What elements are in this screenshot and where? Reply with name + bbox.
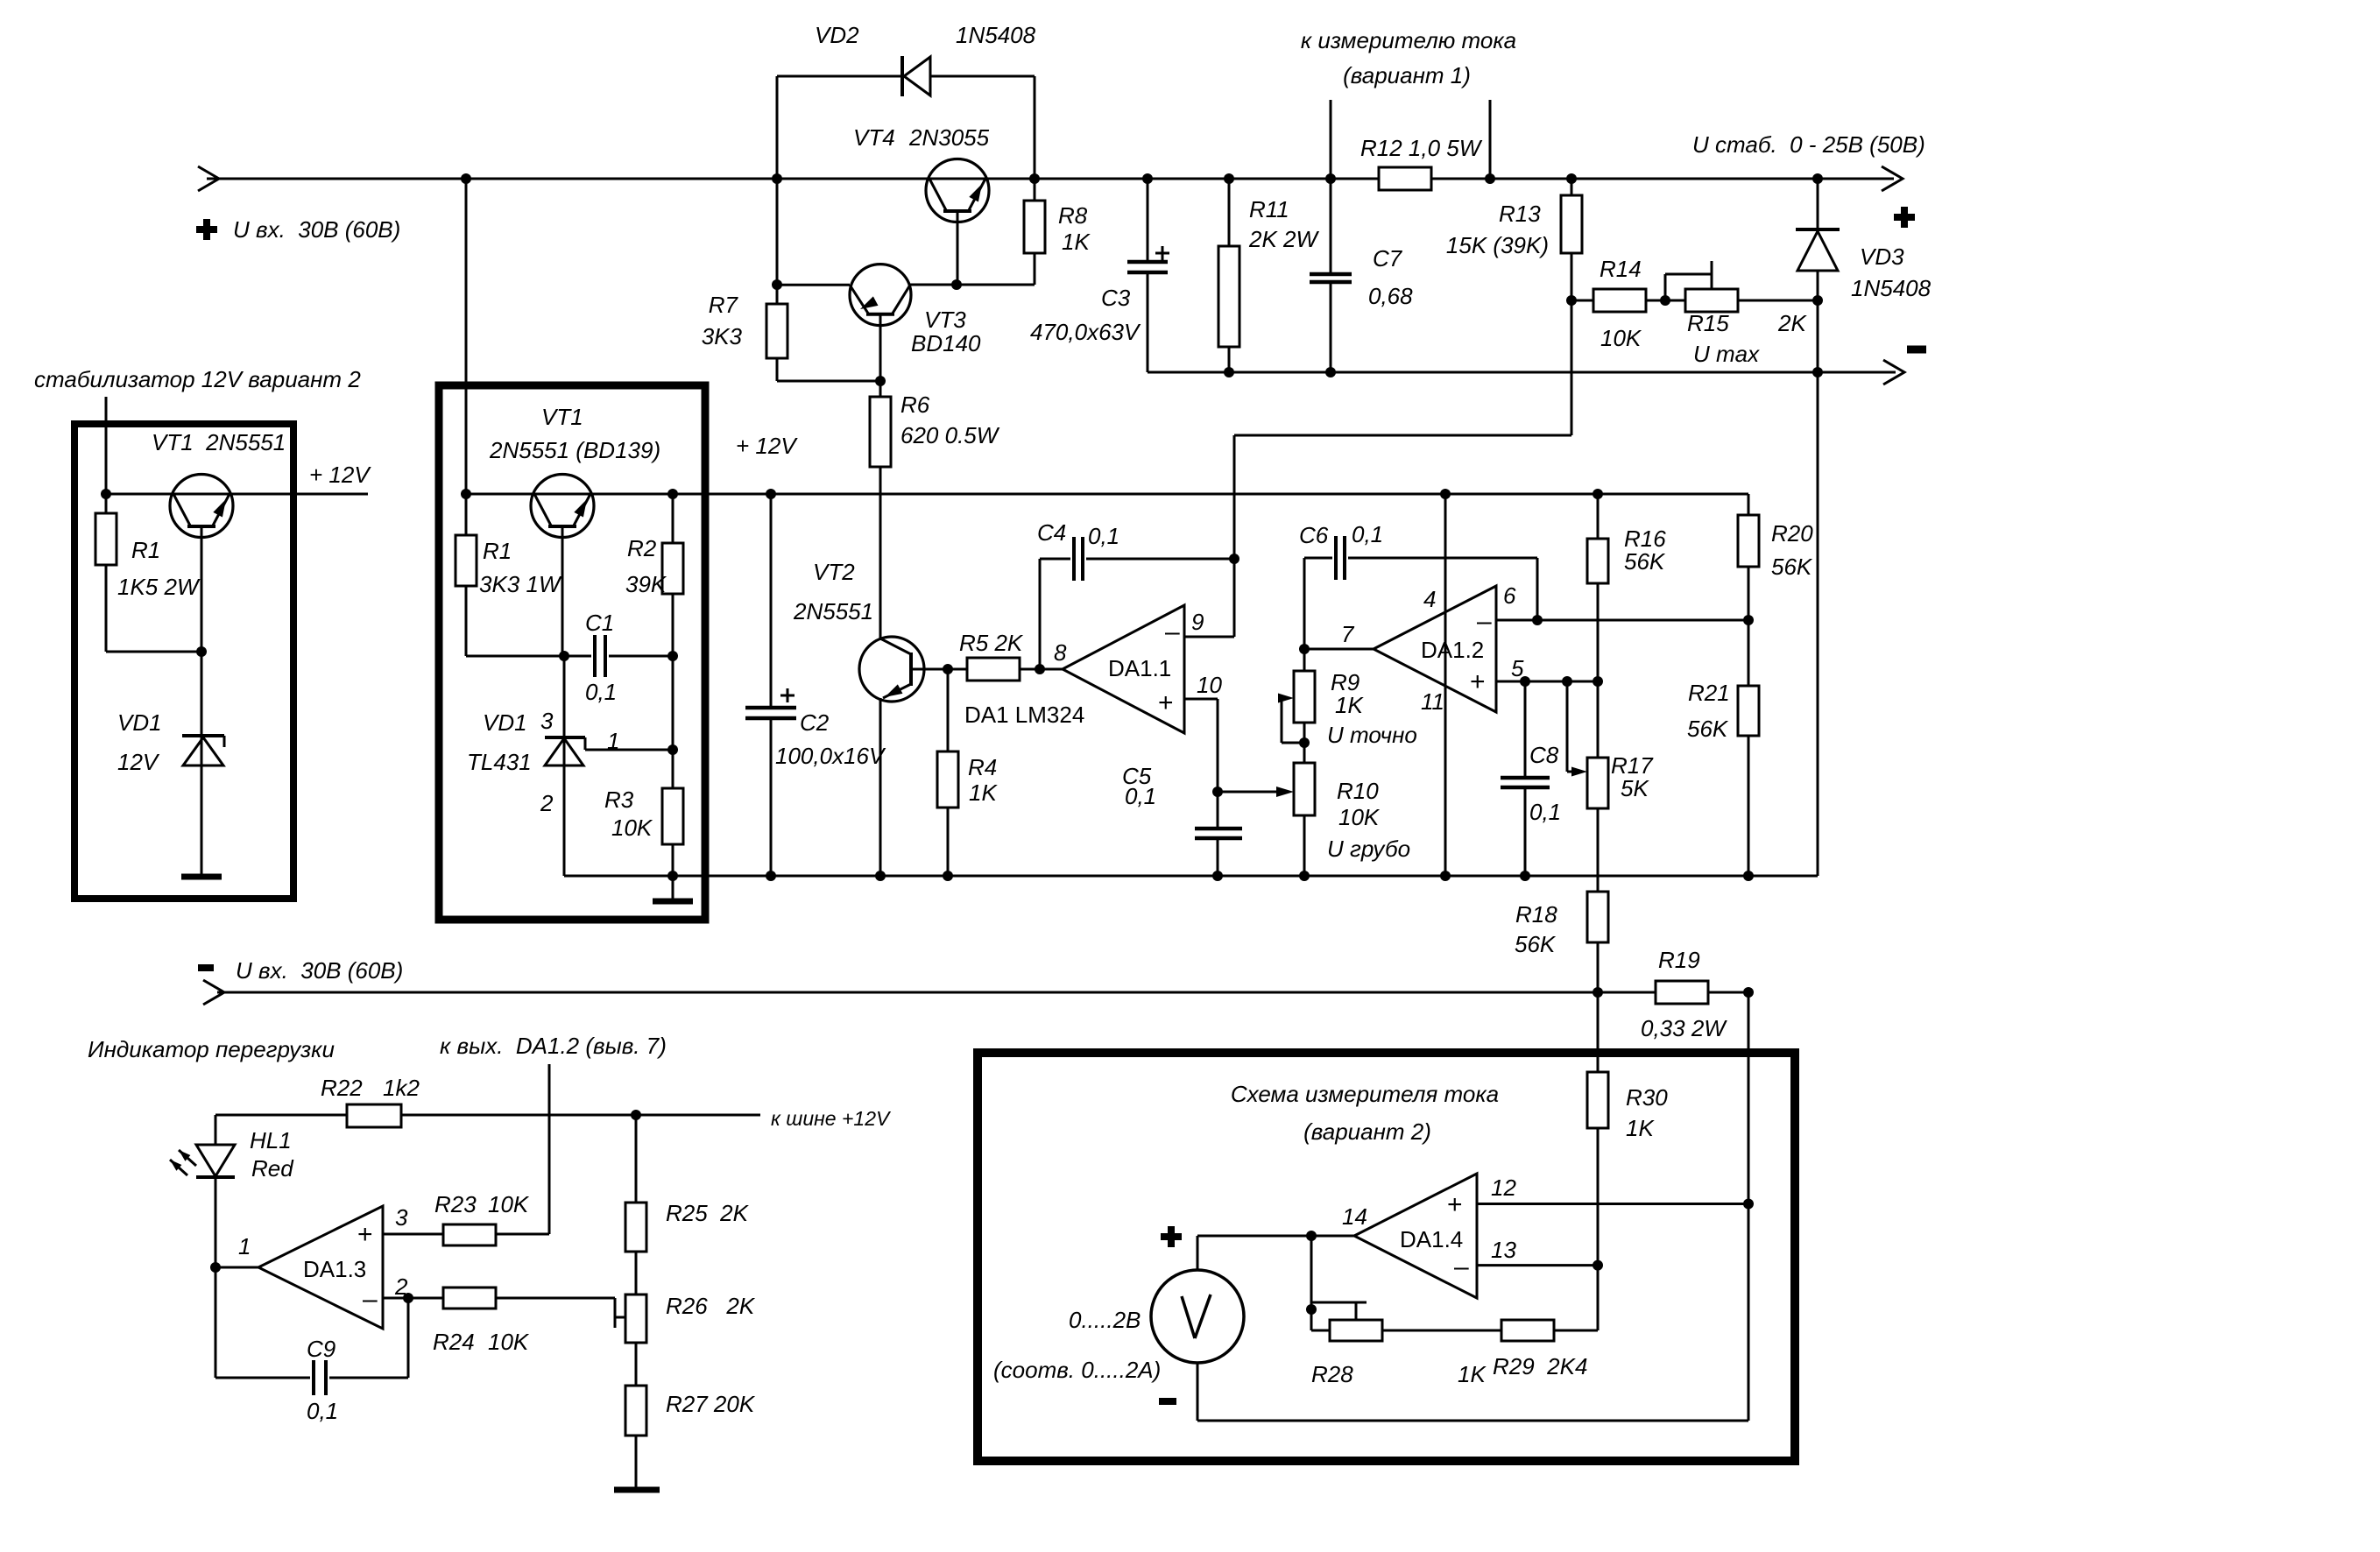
svg-text:R15: R15 bbox=[1687, 310, 1729, 336]
wire VD2 top horizontal bbox=[777, 75, 1035, 78]
svg-text:к шине +12V: к шине +12V bbox=[771, 1107, 892, 1130]
svg-text:VD3: VD3 bbox=[1860, 243, 1904, 270]
wire TL431 ref to R2/R3 node bbox=[585, 749, 673, 751]
svg-text:1N5408: 1N5408 bbox=[956, 22, 1036, 48]
capacitor C6 bbox=[1299, 521, 1537, 649]
resistor R4 bbox=[937, 669, 998, 876]
resistor R16 bbox=[1587, 494, 1666, 758]
label stabilizator 12V variant 2 bbox=[34, 366, 361, 392]
capacitor C7 bbox=[1310, 179, 1413, 372]
svg-text:–: – bbox=[1165, 617, 1180, 646]
svg-text:56K: 56K bbox=[1624, 548, 1666, 575]
shunt regulator VD1 TL431 bbox=[467, 656, 619, 816]
node output arrow chevron + bbox=[1882, 166, 1903, 191]
wire VT2 emitter down bbox=[879, 698, 882, 876]
svg-text:Индикатор перегрузки: Индикатор перегрузки bbox=[88, 1036, 335, 1062]
svg-text:13: 13 bbox=[1491, 1237, 1516, 1263]
svg-text:–: – bbox=[1454, 1252, 1469, 1281]
trimmer R26 bbox=[625, 1293, 756, 1386]
svg-text:10K: 10K bbox=[1600, 325, 1642, 351]
capacitor C8 bbox=[1501, 681, 1561, 876]
svg-text:R11: R11 bbox=[1249, 196, 1289, 222]
label DA1 LM324 bbox=[964, 702, 1084, 728]
svg-text:10K: 10K bbox=[611, 815, 653, 841]
wire pin14 output bbox=[1197, 1235, 1354, 1238]
trimmer R17 bbox=[1567, 681, 1654, 808]
voltmeter PV1 bbox=[993, 1236, 1244, 1421]
wire R1b bottom to C1 node bbox=[466, 655, 564, 658]
svg-text:0,68: 0,68 bbox=[1368, 283, 1413, 309]
svg-text:(вариант 1): (вариант 1) bbox=[1343, 62, 1471, 88]
wire top +rail input segment bbox=[207, 178, 1379, 180]
op-amp DA1.4 bbox=[1342, 1174, 1516, 1298]
svg-text:R30: R30 bbox=[1626, 1084, 1668, 1111]
transistor VT3 bbox=[850, 265, 981, 356]
resistor R7 bbox=[702, 292, 787, 381]
wire VD3 long drop to ground rail bbox=[1817, 372, 1819, 876]
transistor VT4 bbox=[853, 124, 990, 285]
wire DA1.4 pin12 bbox=[1477, 1203, 1748, 1205]
svg-text:0,33 2W: 0,33 2W bbox=[1641, 1015, 1727, 1041]
wire voltmeter minus loop bbox=[1197, 1204, 1748, 1421]
svg-text:VT3: VT3 bbox=[924, 307, 966, 333]
transistor VT2 bbox=[793, 559, 948, 702]
svg-text:DA1.3: DA1.3 bbox=[303, 1256, 366, 1282]
capacitor C2 bbox=[745, 494, 886, 876]
svg-text:5K: 5K bbox=[1621, 775, 1649, 801]
svg-text:10K: 10K bbox=[1338, 804, 1381, 830]
svg-text:11: 11 bbox=[1421, 688, 1444, 715]
svg-text:+: + bbox=[1158, 688, 1174, 717]
svg-text:10K: 10K bbox=[488, 1329, 530, 1355]
label U vh input bbox=[233, 216, 400, 243]
wire R7 bottom to R6 top bbox=[777, 380, 880, 383]
wire +12V rail main bbox=[466, 493, 1748, 496]
svg-text:1K: 1K bbox=[1626, 1115, 1655, 1141]
svg-text:к вых. DA1.2 (выв. 7): к вых. DA1.2 (выв. 7) bbox=[440, 1033, 667, 1059]
svg-text:R14: R14 bbox=[1600, 256, 1642, 282]
label + output big bbox=[1894, 207, 1915, 228]
wire TL431 anode down bbox=[563, 766, 566, 876]
svg-text:TL431: TL431 bbox=[467, 749, 532, 775]
svg-text:C3: C3 bbox=[1101, 285, 1131, 311]
svg-text:1: 1 bbox=[238, 1233, 251, 1259]
node input arrow chevron bbox=[198, 166, 219, 191]
svg-text:C2: C2 bbox=[800, 709, 830, 736]
resistor R3 bbox=[604, 750, 683, 876]
wire box1 +12V rail bbox=[106, 493, 368, 496]
svg-text:C9: C9 bbox=[307, 1336, 335, 1362]
capacitor C9 feedback loop bbox=[215, 1267, 408, 1424]
svg-text:+ 12V: + 12V bbox=[309, 462, 371, 488]
wire R1 to VT1 emitter junction bbox=[106, 651, 201, 653]
wire R22 row bbox=[215, 1114, 347, 1117]
wire to +12V bus bbox=[636, 1114, 760, 1117]
resistor R29 bbox=[1382, 1320, 1587, 1379]
wire R19 node down into box bbox=[1748, 992, 1750, 1204]
label k izmeritelyu toka bbox=[1301, 27, 1516, 88]
ground box2 bbox=[653, 876, 693, 901]
svg-text:–: – bbox=[1477, 607, 1492, 636]
svg-text:VT1: VT1 bbox=[541, 404, 583, 430]
svg-text:R29 2K4: R29 2K4 bbox=[1493, 1353, 1587, 1379]
svg-text:R24: R24 bbox=[433, 1329, 475, 1355]
label - output big bbox=[1907, 346, 1926, 354]
svg-text:100,0x16V: 100,0x16V bbox=[775, 743, 886, 769]
label voltmeter minus bbox=[1159, 1398, 1176, 1405]
wire R13 node down to pin9 path bbox=[1234, 300, 1571, 559]
svg-text:3K3 1W: 3K3 1W bbox=[479, 571, 562, 597]
svg-text:56K: 56K bbox=[1687, 716, 1729, 742]
wire DA1.2 pin6 line bbox=[1496, 619, 1748, 622]
trimmer R15 bbox=[1665, 261, 1818, 367]
svg-text:U вх. 30В (60В): U вх. 30В (60В) bbox=[236, 957, 403, 984]
resistor R24 bbox=[433, 1287, 615, 1355]
svg-text:U max: U max bbox=[1693, 341, 1760, 367]
zener VD1 (box1) bbox=[117, 652, 224, 875]
resistor R23 bbox=[434, 1191, 549, 1245]
op-amp DA1.3 bbox=[238, 1204, 408, 1329]
wire box1 top stub bbox=[105, 397, 108, 494]
svg-text:8: 8 bbox=[1054, 639, 1067, 666]
label k vyh DA1.2 bbox=[440, 1033, 667, 1059]
resistor R18 bbox=[1515, 808, 1608, 992]
wire DA1.2 pin5 line bbox=[1496, 681, 1598, 683]
wire VD2 left vertical bbox=[776, 76, 779, 179]
ground R27 bbox=[614, 1487, 660, 1493]
svg-text:+: + bbox=[1447, 1190, 1463, 1219]
svg-text:C7: C7 bbox=[1373, 245, 1403, 272]
box regulator TL431 bbox=[439, 385, 705, 920]
wire top +rail output segment bbox=[1431, 178, 1894, 180]
svg-text:1k2: 1k2 bbox=[383, 1075, 420, 1101]
wire negative input rail bbox=[217, 991, 1656, 994]
svg-text:R8: R8 bbox=[1058, 202, 1088, 229]
label U stab output bbox=[1692, 131, 1925, 158]
svg-text:U стаб. 0 - 25В (50В): U стаб. 0 - 25В (50В) bbox=[1692, 131, 1925, 158]
capacitor C3 bbox=[1030, 179, 1169, 372]
svg-text:DA1.1: DA1.1 bbox=[1108, 655, 1171, 681]
wire R24 to R26 wiper bbox=[615, 1298, 625, 1328]
svg-text:(вариант 2): (вариант 2) bbox=[1303, 1118, 1431, 1145]
wire R7 column bbox=[776, 179, 779, 304]
label voltmeter plus bbox=[1161, 1226, 1182, 1247]
resistor R25 bbox=[625, 1115, 750, 1295]
label + input big bbox=[196, 219, 217, 240]
svg-text:R27 20K: R27 20K bbox=[666, 1391, 756, 1417]
wire VD2 right vertical bbox=[1034, 76, 1036, 179]
svg-text:470,0x63V: 470,0x63V bbox=[1030, 319, 1141, 345]
node current-meter stub 2 bbox=[1489, 100, 1492, 179]
label +12V box1 bbox=[309, 462, 371, 488]
node output arrow chevron - bbox=[1883, 360, 1904, 384]
svg-text:C8: C8 bbox=[1529, 742, 1559, 768]
node negative input arrow chevron bbox=[203, 980, 224, 1005]
svg-text:+ 12V: + 12V bbox=[736, 433, 798, 459]
label +12V mid bbox=[736, 433, 798, 459]
svg-text:R20: R20 bbox=[1771, 520, 1813, 547]
svg-text:R18: R18 bbox=[1515, 901, 1557, 928]
node current-meter stub 1 bbox=[1330, 100, 1332, 179]
svg-text:C1: C1 bbox=[585, 610, 614, 636]
box current meter variant 2 bbox=[978, 1053, 1795, 1461]
resistor R11 bbox=[1218, 179, 1319, 372]
svg-text:DA1 LM324: DA1 LM324 bbox=[964, 702, 1084, 728]
svg-text:R22: R22 bbox=[321, 1075, 363, 1101]
label shema izmeritelya toka bbox=[1231, 1081, 1499, 1145]
svg-text:2K 2W: 2K 2W bbox=[1248, 226, 1319, 252]
resistor R1 (box2) bbox=[456, 494, 562, 656]
resistor R22 bbox=[321, 1075, 636, 1127]
wire DA1.2 supply pin4 pin11 bbox=[1444, 494, 1447, 876]
svg-text:VT2: VT2 bbox=[813, 559, 855, 585]
svg-text:U грубо: U грубо bbox=[1327, 836, 1410, 862]
svg-text:9: 9 bbox=[1191, 609, 1204, 635]
svg-text:U точно: U точно bbox=[1327, 722, 1417, 748]
svg-text:3: 3 bbox=[395, 1204, 408, 1231]
svg-text:56K: 56K bbox=[1515, 931, 1557, 957]
svg-text:2N5551 (BD139): 2N5551 (BD139) bbox=[489, 437, 660, 463]
svg-text:R19: R19 bbox=[1658, 947, 1700, 973]
svg-text:R6: R6 bbox=[900, 392, 930, 418]
capacitor C1 bbox=[564, 610, 673, 705]
svg-text:Схема измерителя тока: Схема измерителя тока bbox=[1231, 1081, 1499, 1107]
wire lower output rail bbox=[1148, 371, 1896, 374]
svg-text:R25 2K: R25 2K bbox=[666, 1200, 750, 1226]
led HL1 bbox=[170, 1115, 294, 1267]
resistor R5 bbox=[948, 630, 1063, 681]
resistor R12 bbox=[1360, 135, 1483, 190]
svg-text:R3: R3 bbox=[604, 787, 634, 813]
svg-text:Red: Red bbox=[251, 1155, 294, 1182]
resistor R8 bbox=[1024, 179, 1091, 285]
svg-text:1K: 1K bbox=[1062, 229, 1091, 255]
svg-text:2N3055: 2N3055 bbox=[908, 124, 990, 151]
svg-text:3: 3 bbox=[540, 708, 554, 734]
svg-text:3K3: 3K3 bbox=[702, 323, 743, 349]
svg-text:2N5551: 2N5551 bbox=[793, 598, 873, 624]
svg-text:1N5408: 1N5408 bbox=[1851, 275, 1932, 301]
svg-text:R7: R7 bbox=[709, 292, 739, 318]
wire DA1.1 pin10 bbox=[1184, 699, 1218, 829]
svg-text:DA1.4: DA1.4 bbox=[1400, 1226, 1463, 1252]
resistor R2 bbox=[625, 494, 683, 750]
label VT1 box2 bbox=[489, 404, 660, 463]
svg-text:56K: 56K bbox=[1771, 554, 1813, 580]
svg-text:0,1: 0,1 bbox=[307, 1398, 338, 1424]
svg-text:+: + bbox=[1470, 667, 1486, 696]
svg-text:стабилизатор 12V вариант 2: стабилизатор 12V вариант 2 bbox=[34, 366, 361, 392]
svg-text:0,1: 0,1 bbox=[1529, 799, 1561, 825]
svg-text:0,1: 0,1 bbox=[1088, 523, 1119, 549]
svg-text:R21: R21 bbox=[1688, 680, 1730, 706]
wire DA1.3 pin3 bbox=[383, 1233, 443, 1236]
svg-text:14: 14 bbox=[1342, 1203, 1367, 1230]
svg-text:R28: R28 bbox=[1311, 1361, 1353, 1387]
svg-text:R23: R23 bbox=[434, 1191, 477, 1217]
svg-text:U вх. 30В (60В): U вх. 30В (60В) bbox=[233, 216, 400, 243]
svg-text:10: 10 bbox=[1197, 672, 1222, 698]
svg-text:1K5 2W: 1K5 2W bbox=[117, 574, 201, 600]
svg-text:HL1: HL1 bbox=[250, 1127, 292, 1153]
svg-text:0,1: 0,1 bbox=[1125, 783, 1156, 809]
op-amp DA1.1 bbox=[1054, 605, 1222, 733]
svg-text:620 0.5W: 620 0.5W bbox=[900, 422, 1000, 448]
svg-text:1K: 1K bbox=[969, 780, 998, 806]
svg-text:R10: R10 bbox=[1337, 778, 1379, 804]
wire pin1 node bbox=[215, 1266, 258, 1269]
trimmer R28 bbox=[1311, 1302, 1487, 1387]
box stabilizer variant 2 bbox=[74, 424, 293, 899]
capacitor C5 bbox=[1122, 763, 1242, 876]
svg-text:4: 4 bbox=[1423, 586, 1436, 612]
wire DA1.2 output pin7 bbox=[1304, 648, 1374, 651]
resistor R14 bbox=[1571, 256, 1665, 351]
capacitor C4 bbox=[1037, 519, 1234, 669]
svg-text:0,1: 0,1 bbox=[1352, 521, 1383, 547]
wire VT3 base down bbox=[879, 314, 882, 397]
svg-text:39K: 39K bbox=[625, 571, 667, 597]
wire C5 node to R10 wiper bbox=[1218, 787, 1294, 797]
svg-text:VD2: VD2 bbox=[815, 22, 859, 48]
svg-text:15K (39K): 15K (39K) bbox=[1446, 232, 1549, 258]
svg-text:2: 2 bbox=[540, 790, 554, 816]
svg-text:2K: 2K bbox=[1777, 310, 1807, 336]
svg-text:10K: 10K bbox=[488, 1191, 530, 1217]
wire DA1.4 pin13 bbox=[1477, 1264, 1598, 1266]
svg-text:C6: C6 bbox=[1299, 522, 1329, 548]
resistor R13 bbox=[1446, 179, 1582, 300]
label k shine +12V bbox=[771, 1107, 892, 1130]
svg-text:C4: C4 bbox=[1037, 519, 1066, 546]
svg-text:0.....2В: 0.....2В bbox=[1069, 1307, 1141, 1333]
svg-text:VT4: VT4 bbox=[853, 124, 895, 151]
svg-text:R5 2K: R5 2K bbox=[959, 630, 1024, 656]
wire pin14 node down to R28 bbox=[1310, 1236, 1313, 1309]
wire R30 bottom to R29 bbox=[1554, 1266, 1598, 1330]
trimmer R10 bbox=[1294, 763, 1410, 876]
wire VT3 emitter to node bbox=[777, 284, 850, 286]
diode VD2 bbox=[815, 22, 1036, 96]
svg-text:1K: 1K bbox=[1335, 692, 1364, 718]
svg-text:R26 2K: R26 2K bbox=[666, 1293, 756, 1319]
svg-text:R13: R13 bbox=[1499, 201, 1541, 227]
svg-text:12: 12 bbox=[1491, 1175, 1516, 1201]
wire from DA1.2 output down bbox=[548, 1064, 551, 1234]
wire main vertical drop from +rail bbox=[465, 179, 468, 494]
svg-text:+: + bbox=[357, 1220, 373, 1249]
label indikator peregruzki bbox=[88, 1036, 335, 1062]
wire VT3 collector to R8/VT4 base bbox=[910, 284, 1035, 286]
transistor VT1 (box2) bbox=[531, 475, 594, 657]
svg-text:VT1 2N5551: VT1 2N5551 bbox=[152, 429, 286, 455]
resistor R20 bbox=[1738, 494, 1813, 620]
svg-text:R1: R1 bbox=[483, 538, 512, 564]
wire DA1.3 pin2 bbox=[383, 1297, 443, 1300]
resistor R30 bbox=[1587, 992, 1668, 1266]
resistor R21 bbox=[1687, 620, 1759, 876]
svg-text:(соотв. 0.....2А): (соотв. 0.....2А) bbox=[993, 1357, 1161, 1383]
svg-text:6: 6 bbox=[1503, 582, 1516, 609]
svg-text:VD1: VD1 bbox=[117, 709, 162, 736]
diode VD3 bbox=[1796, 179, 1932, 372]
label - input big bbox=[198, 964, 214, 971]
svg-text:к измерителю тока: к измерителю тока bbox=[1301, 27, 1516, 53]
op-amp DA1.2 bbox=[1341, 582, 1524, 715]
svg-text:1K: 1K bbox=[1458, 1361, 1487, 1387]
label U vh negative bbox=[236, 957, 403, 984]
svg-text:–: – bbox=[363, 1285, 378, 1314]
wire DA1.1 pin9 bbox=[1184, 559, 1234, 637]
svg-text:DA1.2: DA1.2 bbox=[1421, 637, 1484, 663]
wire ground rail bbox=[564, 875, 1818, 878]
svg-text:R12 1,0 5W: R12 1,0 5W bbox=[1360, 135, 1483, 161]
ground box1 bbox=[181, 874, 222, 880]
svg-text:7: 7 bbox=[1341, 621, 1355, 647]
transistor VT1 (box1) bbox=[152, 429, 286, 652]
resistor R1 (box1) bbox=[95, 494, 201, 652]
resistor R27 bbox=[625, 1386, 756, 1488]
svg-text:R1: R1 bbox=[131, 537, 160, 563]
resistor R6 bbox=[870, 392, 1000, 638]
trimmer R9 bbox=[1278, 649, 1417, 763]
svg-text:0,1: 0,1 bbox=[585, 679, 617, 705]
svg-text:R4: R4 bbox=[968, 754, 997, 780]
svg-text:VD1: VD1 bbox=[483, 709, 527, 736]
svg-text:BD140: BD140 bbox=[911, 330, 981, 356]
svg-text:12V: 12V bbox=[117, 749, 160, 775]
svg-text:R2: R2 bbox=[627, 535, 657, 561]
resistor R19 bbox=[1641, 947, 1748, 1041]
